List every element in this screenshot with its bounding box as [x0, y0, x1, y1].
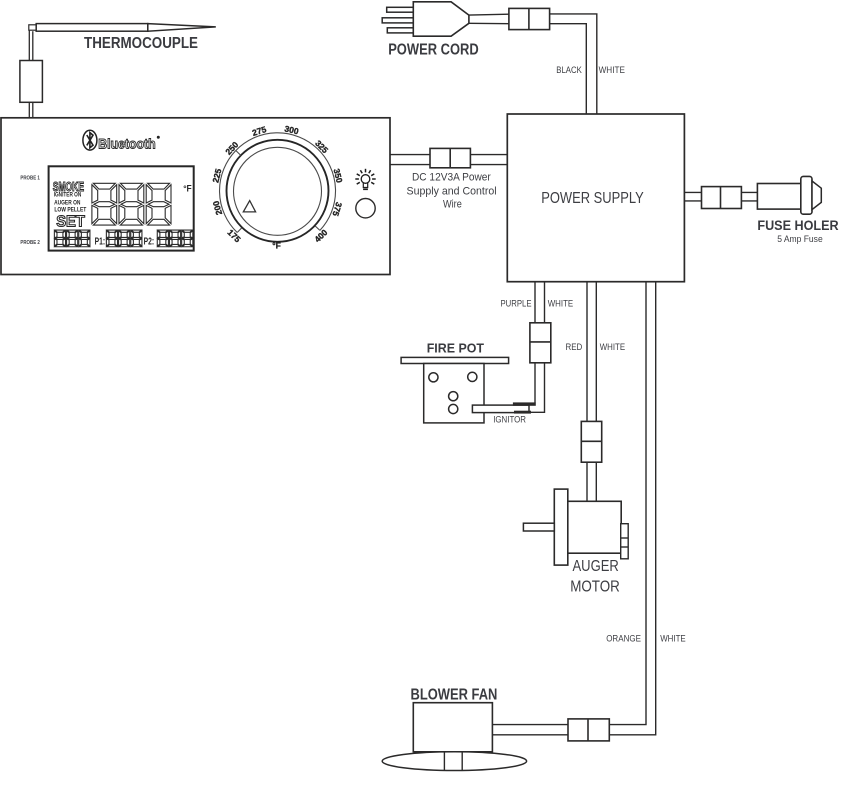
LCD small digits group 1 [54, 230, 90, 247]
wire to fuse holder [684, 192, 757, 201]
fire pot top plate [401, 357, 509, 363]
wire white down to power supply [550, 14, 597, 114]
power supply box [507, 114, 684, 282]
power cord plug prongs [382, 7, 413, 33]
light bulb icon [355, 169, 375, 190]
svg-text:POWER SUPPLY: POWER SUPPLY [541, 190, 644, 207]
svg-text:SET: SET [56, 213, 85, 230]
ignitor wire connector [530, 323, 551, 363]
svg-text:DC 12V3A Power: DC 12V3A Power [412, 171, 491, 183]
dial arc end tick right [315, 226, 320, 231]
wire orange [492, 282, 646, 725]
wire black down to power supply [550, 24, 587, 114]
LCD small digits group 3 [157, 230, 193, 247]
thermocouple probe [29, 24, 216, 32]
ignitor terminal bar bottom [514, 411, 531, 414]
bluetooth logo [83, 130, 160, 151]
wire red vertical [586, 282, 588, 502]
svg-text:Supply and Control: Supply and Control [407, 186, 497, 198]
wire power cord cable [469, 14, 509, 24]
svg-text:IGNITER ON: IGNITER ON [54, 191, 82, 198]
wire thermocouple upper pair [29, 30, 33, 60]
svg-text:WHITE: WHITE [600, 342, 625, 353]
svg-text:PROBE 2: PROBE 2 [20, 240, 40, 246]
auger motor body [568, 501, 621, 553]
wire white to ignitor [529, 282, 544, 413]
svg-text:WHITE: WHITE [660, 634, 686, 645]
svg-text:RED: RED [566, 342, 583, 353]
label DC 12V3A Power Supply and Control Wire [407, 171, 497, 210]
svg-text:THERMOCOUPLE: THERMOCOUPLE [84, 35, 198, 52]
ignitor terminal bar top [513, 402, 536, 405]
dial knob inner circle [234, 147, 322, 235]
svg-text:Wire: Wire [443, 199, 462, 211]
svg-text:MOTOR: MOTOR [570, 579, 620, 596]
svg-text:5 Amp Fuse: 5 Amp Fuse [777, 233, 823, 244]
svg-text:P1:: P1: [95, 236, 106, 247]
svg-text:PROBE 1: PROBE 1 [20, 176, 40, 182]
fire pot hole 4 [449, 404, 458, 413]
svg-text:FUSE HOLER: FUSE HOLER [757, 218, 838, 234]
fire pot body [424, 364, 484, 423]
dial knob outer bold circle [227, 140, 329, 242]
control panel box [1, 118, 390, 275]
blower fan hub [444, 752, 462, 771]
wire white to blower [492, 282, 655, 735]
svg-text:PURPLE: PURPLE [501, 299, 532, 310]
LCD display box [49, 166, 194, 250]
LCD big digit 3 [146, 183, 171, 225]
wire DC control pair [390, 155, 507, 165]
auger motor terminal block [621, 524, 629, 559]
svg-text:Bluetooth: Bluetooth [98, 137, 156, 152]
svg-text:P2:: P2: [144, 236, 155, 247]
dial outer arc [220, 133, 336, 233]
svg-text:WHITE: WHITE [548, 299, 574, 310]
dial arc end tick left [237, 228, 242, 233]
wire thermocouple lower pair [29, 102, 33, 118]
svg-text:IGNITOR: IGNITOR [493, 415, 526, 425]
fuse holder cap [801, 176, 812, 214]
DC wire connector [430, 148, 470, 167]
auger wire connector [581, 421, 601, 462]
wire purple vertical [534, 282, 536, 403]
thermocouple connector [20, 61, 43, 103]
svg-text:BLACK: BLACK [556, 65, 582, 76]
ignitor element [472, 405, 529, 413]
LCD big digit 2 [119, 183, 144, 225]
fuse holder tip [812, 181, 821, 210]
blower fan base ellipse [382, 752, 526, 771]
fuse holder body [757, 184, 800, 210]
svg-text:POWER CORD: POWER CORD [388, 41, 479, 58]
fire pot hole 3 [449, 392, 458, 401]
svg-text:WHITE: WHITE [599, 65, 625, 76]
power cord plug body [413, 2, 469, 36]
blower fan housing [413, 703, 492, 752]
dial pointer triangle [243, 201, 255, 212]
panel button circle [356, 199, 375, 218]
fire pot hole 1 [429, 373, 438, 382]
svg-text:BLOWER FAN: BLOWER FAN [411, 686, 498, 703]
wire white to auger [595, 282, 597, 502]
fuse wire connector [702, 187, 742, 209]
svg-text:ORANGE: ORANGE [606, 634, 641, 645]
blower wire connector [568, 719, 609, 741]
dial tick at 250 [236, 151, 241, 156]
svg-text:AUGER ON: AUGER ON [54, 199, 81, 206]
auger motor shaft [523, 523, 554, 531]
fire pot hole 2 [468, 372, 477, 381]
svg-text:°F: °F [272, 241, 281, 251]
svg-text:FIRE POT: FIRE POT [427, 341, 484, 356]
svg-text:AUGER: AUGER [573, 558, 619, 575]
svg-text:°F: °F [183, 184, 192, 195]
LCD small digits group 2 [106, 230, 142, 247]
auger motor flange [554, 489, 568, 565]
LCD big digit 1 [92, 183, 117, 225]
power cord inline connector [509, 8, 550, 29]
